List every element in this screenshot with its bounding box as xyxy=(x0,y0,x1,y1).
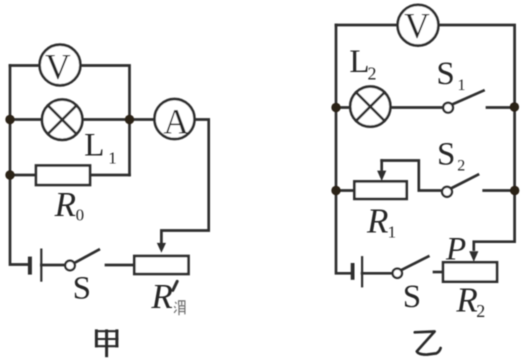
svg-text:S: S xyxy=(403,279,421,315)
svg-text:V: V xyxy=(45,46,71,86)
svg-text:S: S xyxy=(436,56,454,92)
svg-text:S: S xyxy=(437,137,455,173)
svg-text:2: 2 xyxy=(457,158,465,175)
svg-text:R: R xyxy=(54,185,76,224)
svg-text:2: 2 xyxy=(476,301,485,321)
svg-text:1: 1 xyxy=(458,77,466,94)
svg-text:2: 2 xyxy=(368,63,377,83)
svg-text:1: 1 xyxy=(108,149,117,168)
svg-text:R: R xyxy=(366,202,388,241)
svg-text:A: A xyxy=(163,101,189,141)
svg-text:R: R xyxy=(150,277,172,316)
svg-text:R: R xyxy=(455,280,477,319)
svg-text:0: 0 xyxy=(76,205,85,224)
svg-text:L: L xyxy=(84,128,104,164)
svg-text:P: P xyxy=(445,231,466,267)
svg-text:S: S xyxy=(73,271,91,307)
svg-text:1: 1 xyxy=(388,223,397,242)
svg-text:V: V xyxy=(404,6,430,46)
